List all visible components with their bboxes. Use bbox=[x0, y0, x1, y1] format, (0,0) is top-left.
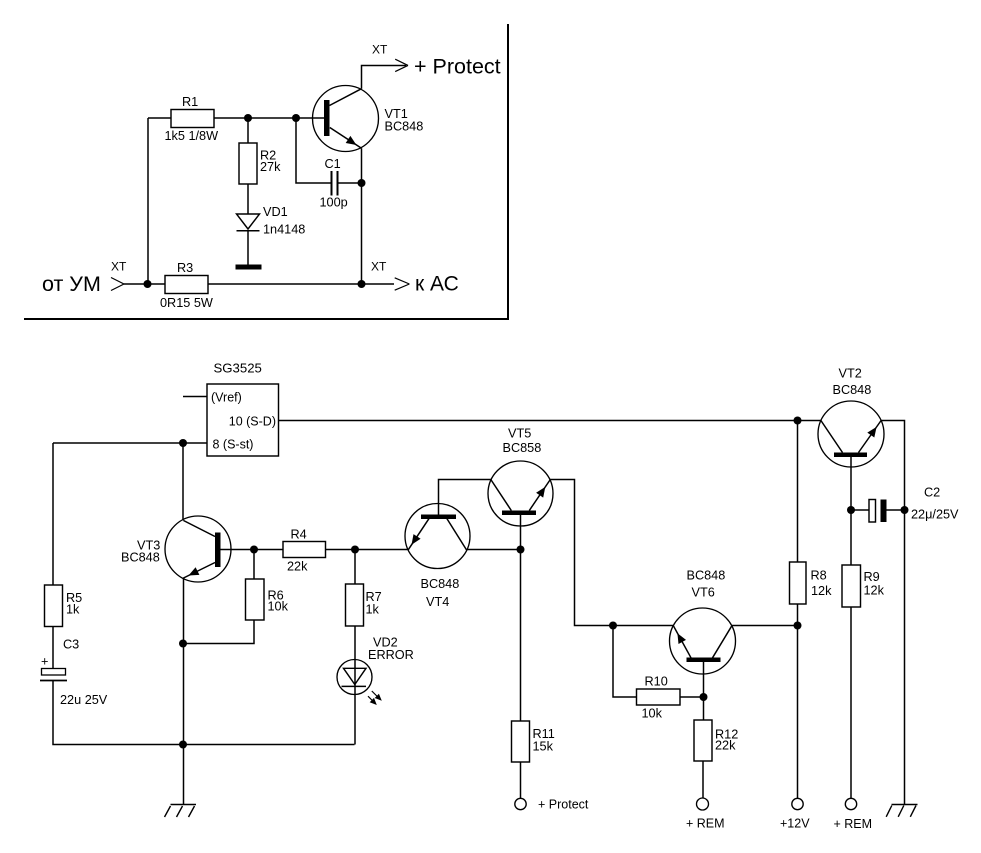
svg-text:VT2: VT2 bbox=[839, 367, 862, 381]
svg-text:к АС: к АС bbox=[415, 273, 459, 296]
svg-text:R8: R8 bbox=[811, 569, 827, 583]
svg-text:+ REM: + REM bbox=[834, 817, 873, 831]
svg-text:VT4: VT4 bbox=[426, 595, 449, 609]
svg-text:BC848: BC848 bbox=[385, 120, 424, 134]
svg-text:22k: 22k bbox=[715, 739, 736, 753]
svg-text:0R15 5W: 0R15 5W bbox=[160, 296, 213, 310]
svg-text:(Vref): (Vref) bbox=[211, 391, 242, 405]
svg-text:15k: 15k bbox=[533, 740, 554, 754]
svg-text:XT: XT bbox=[111, 260, 127, 274]
svg-text:ERROR: ERROR bbox=[368, 648, 414, 662]
svg-text:12k: 12k bbox=[811, 584, 832, 598]
svg-text:22k: 22k bbox=[287, 560, 308, 574]
svg-text:R10: R10 bbox=[645, 675, 668, 689]
svg-text:22μ/25V: 22μ/25V bbox=[911, 508, 959, 522]
svg-text:10k: 10k bbox=[268, 600, 289, 614]
svg-text:10k: 10k bbox=[642, 707, 663, 721]
svg-text:+12V: +12V bbox=[780, 817, 810, 831]
svg-text:BC848: BC848 bbox=[687, 569, 726, 583]
svg-text:R9: R9 bbox=[864, 570, 880, 584]
svg-text:от УМ: от УМ bbox=[42, 272, 101, 296]
svg-text:+ Protect: + Protect bbox=[414, 55, 501, 79]
svg-text:+: + bbox=[41, 655, 48, 669]
svg-text:BC848: BC848 bbox=[833, 383, 872, 397]
svg-text:+ REM: + REM bbox=[686, 817, 725, 831]
svg-text:C3: C3 bbox=[63, 638, 79, 652]
svg-text:1k5 1/8W: 1k5 1/8W bbox=[165, 129, 219, 143]
svg-text:1k: 1k bbox=[66, 603, 80, 617]
svg-text:R1: R1 bbox=[182, 95, 198, 109]
svg-text:R4: R4 bbox=[291, 528, 307, 542]
svg-text:R3: R3 bbox=[177, 261, 193, 275]
svg-text:8 (S-st): 8 (S-st) bbox=[213, 438, 254, 452]
svg-text:BC848: BC848 bbox=[421, 577, 460, 591]
svg-text:+ Protect: + Protect bbox=[538, 798, 589, 812]
svg-text:XT: XT bbox=[371, 260, 387, 274]
svg-text:12k: 12k bbox=[864, 584, 885, 598]
svg-text:10 (S-D): 10 (S-D) bbox=[229, 415, 276, 429]
svg-text:BC858: BC858 bbox=[503, 441, 542, 455]
svg-text:22u 25V: 22u 25V bbox=[60, 693, 108, 707]
svg-text:SG3525: SG3525 bbox=[214, 361, 262, 376]
svg-text:27k: 27k bbox=[260, 160, 281, 174]
svg-text:1k: 1k bbox=[366, 603, 380, 617]
svg-text:C2: C2 bbox=[924, 486, 940, 500]
svg-text:XT: XT bbox=[372, 43, 388, 57]
svg-text:1n4148: 1n4148 bbox=[263, 223, 305, 237]
svg-text:VD1: VD1 bbox=[263, 205, 288, 219]
svg-text:C1: C1 bbox=[325, 157, 341, 171]
svg-text:100p: 100p bbox=[320, 196, 348, 210]
svg-text:VT5: VT5 bbox=[508, 427, 531, 441]
svg-text:VT6: VT6 bbox=[692, 586, 715, 600]
svg-text:BC848: BC848 bbox=[121, 551, 160, 565]
